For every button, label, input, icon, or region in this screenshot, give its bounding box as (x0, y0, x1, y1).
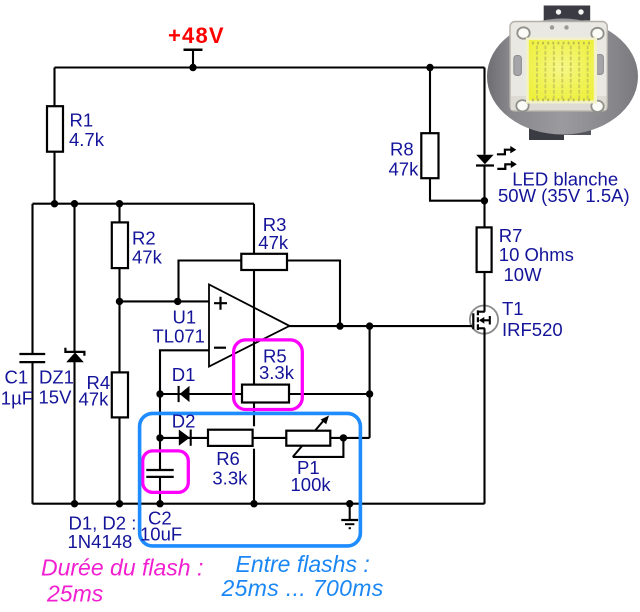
svg-text:R1: R1 (70, 110, 94, 131)
svg-text:25ms: 25ms (46, 581, 104, 607)
svg-text:TL071: TL071 (153, 326, 205, 347)
svg-text:47k: 47k (258, 232, 289, 253)
svg-text:D1, D2 :: D1, D2 : (69, 512, 137, 533)
svg-text:10 Ohms: 10 Ohms (499, 244, 574, 265)
svg-text:25ms ... 700ms: 25ms ... 700ms (221, 575, 384, 601)
svg-text:47k: 47k (132, 247, 163, 268)
svg-text:R8: R8 (390, 138, 414, 159)
svg-text:+48V: +48V (168, 23, 225, 48)
svg-text:3.3k: 3.3k (259, 362, 295, 383)
svg-text:10W: 10W (504, 264, 543, 285)
svg-text:Durée du flash :: Durée du flash : (41, 555, 203, 581)
svg-text:D2: D2 (172, 410, 196, 431)
svg-text:1N4148: 1N4148 (68, 531, 133, 552)
svg-text:1µF: 1µF (1, 388, 33, 409)
svg-text:R2: R2 (132, 228, 156, 249)
svg-text:47k: 47k (79, 389, 110, 410)
svg-text:10uF: 10uF (140, 523, 182, 544)
svg-text:3.3k: 3.3k (212, 468, 248, 489)
svg-text:C1: C1 (5, 367, 29, 388)
svg-text:D1: D1 (172, 364, 196, 385)
svg-text:100k: 100k (291, 474, 332, 495)
svg-text:Entre flashs :: Entre flashs : (236, 551, 370, 577)
svg-text:DZ1: DZ1 (39, 367, 74, 388)
svg-text:R6: R6 (216, 448, 240, 469)
svg-text:IRF520: IRF520 (502, 319, 563, 340)
svg-text:T1: T1 (502, 298, 524, 319)
svg-text:R7: R7 (499, 225, 523, 246)
svg-text:15V: 15V (39, 387, 73, 408)
svg-text:U1: U1 (173, 306, 197, 327)
svg-text:47k: 47k (389, 159, 420, 180)
svg-text:4.7k: 4.7k (69, 129, 105, 150)
svg-text:50W (35V 1.5A): 50W (35V 1.5A) (498, 185, 630, 206)
